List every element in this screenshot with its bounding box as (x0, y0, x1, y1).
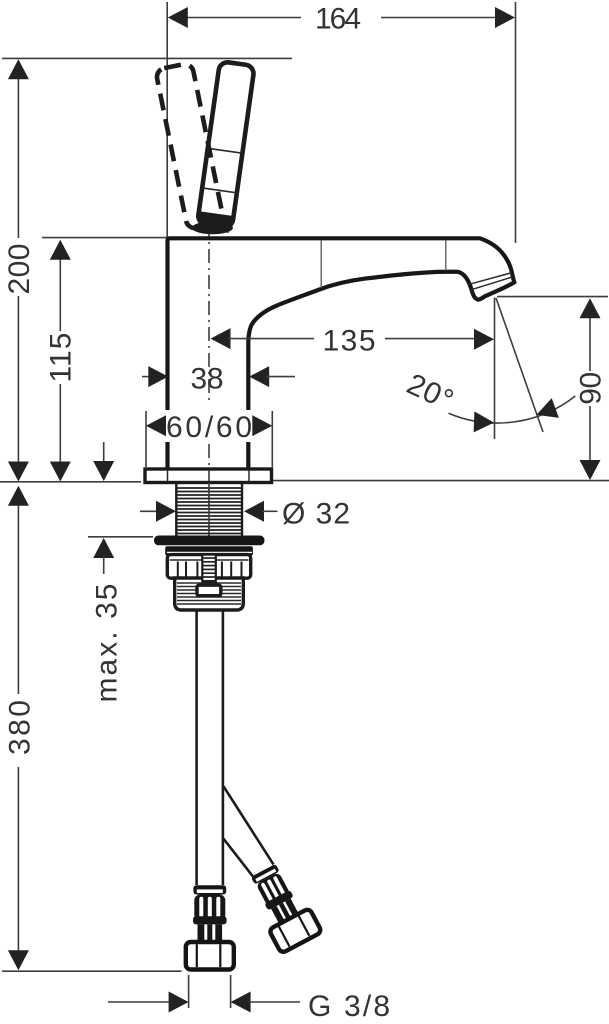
svg-text:38: 38 (191, 363, 224, 396)
angle reference vertical line (494, 298, 496, 440)
svg-text:60/60: 60/60 (166, 411, 252, 444)
base plate (145, 469, 272, 483)
vertical hose (195, 610, 198, 885)
svg-text:164: 164 (315, 3, 361, 36)
dim 90 (589, 317, 591, 371)
dim G3/8 extension lines (188, 975, 190, 1008)
svg-text:90: 90 (575, 372, 608, 405)
angle arc (449, 396, 576, 423)
threaded shank (176, 483, 242, 536)
dim 60/60 (162, 410, 256, 442)
dim 90 extension line top (497, 296, 608, 298)
angle arc arrows (474, 411, 495, 433)
countertop line left (0, 481, 141, 483)
diagonal hose fitting (243, 860, 322, 954)
dim 164 arrows (168, 7, 188, 28)
small nut on rod (197, 585, 221, 596)
faucet body and spout outline (168, 238, 515, 470)
dim 200 line (17, 77, 19, 238)
dim diameter 32 (140, 510, 157, 512)
dim G3/8 (108, 1001, 170, 1003)
dim max35 arrows (93, 461, 114, 481)
svg-text:380: 380 (4, 700, 37, 755)
body centerline over shank (208, 483, 210, 537)
threaded rod (202, 555, 216, 583)
lever pivot (192, 221, 233, 234)
diagonal hose (224, 786, 274, 864)
dim max35 lower stem (103, 557, 105, 575)
dim 380 line (17, 504, 19, 694)
dim max35 upper stem (103, 442, 105, 463)
svg-text:Ø 32: Ø 32 (282, 498, 350, 531)
dim max35 extension line (88, 536, 153, 538)
countertop line right (272, 480, 609, 482)
dim 38 (142, 376, 152, 378)
dim 380 bottom reference line (2, 970, 182, 972)
svg-text:G 3/8: G 3/8 (308, 990, 390, 1023)
lever pivot cap on solid lever (199, 211, 231, 226)
dim 60/60 extension lines (145, 411, 147, 467)
dim 380 arrows (8, 486, 29, 506)
dim 115 extension line top (42, 237, 167, 239)
dim 164 extension line right (515, 2, 517, 243)
handle pivot centerline (208, 145, 210, 405)
rubber seal washer (154, 536, 265, 546)
clamping flange (165, 546, 253, 555)
lower bracket with thread (175, 578, 244, 610)
svg-text:115: 115 (45, 333, 78, 383)
dim 200 extension line top (2, 57, 292, 59)
vertical hose fitting (186, 885, 234, 969)
dim 164 line (186, 17, 301, 19)
dim 135 (211, 328, 231, 349)
mounting nut (167, 555, 250, 579)
spout section line B (445, 241, 447, 271)
angle reference slant line (496, 298, 543, 432)
dim 200 arrows (8, 59, 29, 79)
dim 164 extension line left (166, 2, 168, 237)
spout section line A (320, 241, 322, 289)
dim 115 line (59, 258, 61, 331)
svg-text:200: 200 (3, 244, 36, 295)
lever handle dashed (alternate position) (155, 63, 224, 230)
lever handle solid (197, 61, 254, 228)
spout aerator rim lines (469, 273, 511, 285)
svg-text:135: 135 (323, 325, 376, 358)
lever axis centerline (215, 150, 228, 233)
dim 115 arrows (50, 240, 71, 260)
